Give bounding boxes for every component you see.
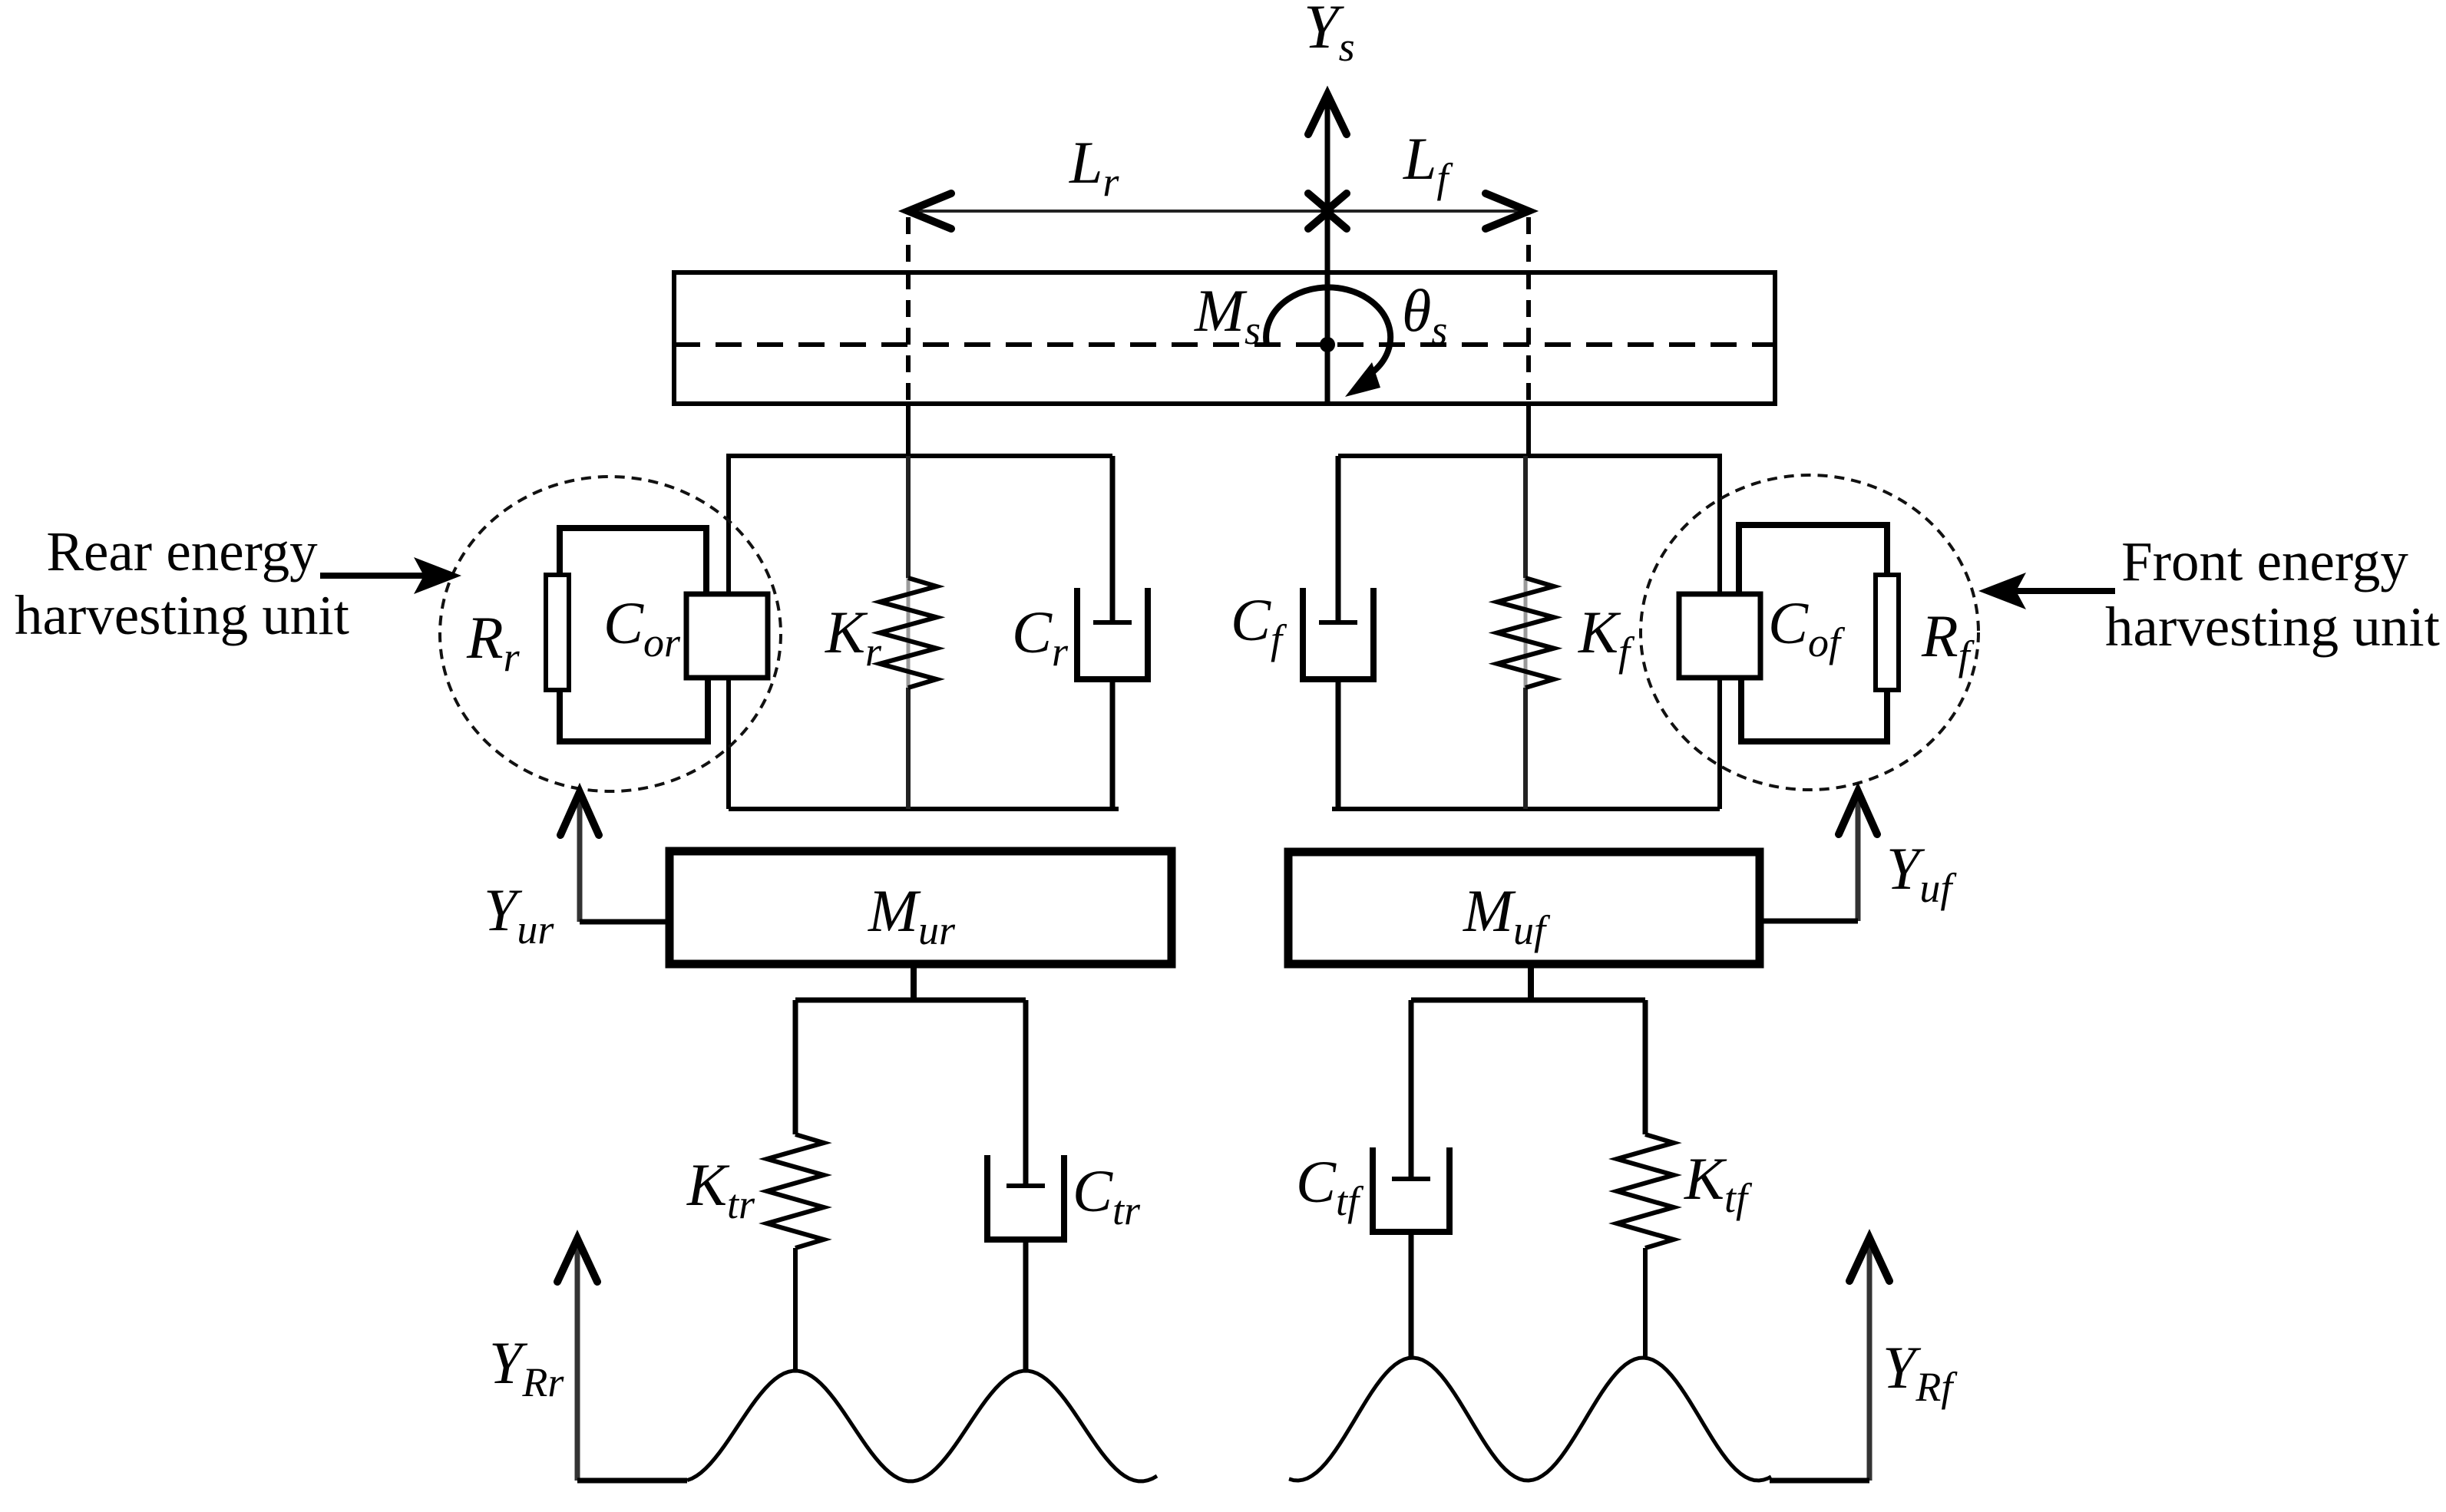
svg-text:harvesting unit: harvesting unit — [2105, 596, 2440, 658]
svg-text:Front energy: Front energy — [2121, 530, 2408, 593]
svg-text:harvesting unit: harvesting unit — [15, 584, 349, 646]
svg-text:Rear energy: Rear energy — [46, 520, 318, 583]
